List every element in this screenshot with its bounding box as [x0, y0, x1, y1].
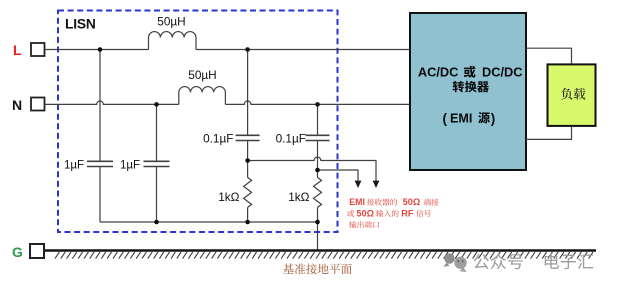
svg-text:G: G — [12, 244, 23, 260]
wire: N line down to capacitor C4 — [317, 104, 319, 135]
wire: L line down to capacitor C3 — [247, 50, 249, 136]
wire: N line down to capacitor C2 — [156, 104, 158, 161]
svg-text:50Ω: 50Ω — [403, 197, 421, 207]
svg-text:50µH: 50µH — [157, 14, 185, 28]
watermark text 公众号 — [473, 253, 522, 269]
annotation line 3: 输出端口 — [349, 221, 379, 228]
svg-text:0.1µF: 0.1µF — [276, 131, 306, 145]
converter box (AC/DC or DC/DC, EMI source) — [410, 13, 526, 170]
svg-text:50µH: 50µH — [188, 68, 216, 82]
ground plane line — [45, 249, 597, 252]
junction node 3 — [154, 102, 159, 107]
svg-text:(: ( — [443, 111, 448, 126]
terminal L square — [31, 43, 45, 56]
terminal N square — [31, 98, 45, 111]
wire: resistor R1 to bottom bus — [247, 207, 249, 222]
wire: inductor L2 to converter (hop over x=247.6 vertical) — [225, 101, 410, 104]
svg-text:1µF: 1µF — [120, 159, 140, 171]
svg-text:AC/DC: AC/DC — [418, 65, 459, 80]
wire: L line down to capacitor C1 — [99, 50, 101, 162]
svg-text:EMI: EMI — [450, 111, 472, 125]
wire: N terminal to inductor L2 (hop over x=100 vertical) — [45, 101, 179, 104]
LISN enclosure (dashed box) — [58, 11, 338, 233]
annotation line 2: 输入的 — [376, 210, 399, 217]
terminal G square — [30, 244, 44, 258]
wire: converter to load (top) — [526, 48, 572, 63]
wire: inductor L1 to converter — [196, 49, 410, 51]
wire: C4/R2 node tap to down arrow — [318, 170, 359, 181]
svg-text:1µF: 1µF — [64, 159, 84, 171]
wire: capacitor C2 to bottom bus — [156, 167, 158, 223]
wire: resistor R2 to bottom bus — [317, 207, 319, 222]
junction node 2 — [245, 47, 250, 52]
junction node 4 — [315, 102, 320, 107]
junction node 5 — [245, 158, 250, 163]
capacitor C2 1uF — [144, 161, 170, 166]
capacitor C3 0.1uF — [236, 135, 260, 140]
annotation line 2: 或 — [347, 210, 354, 217]
wire: capacitor C4 to resistor R2 — [317, 141, 319, 178]
svg-text:0.1µF: 0.1µF — [203, 131, 233, 145]
wire: LISN bottom bus down to ground plane — [317, 222, 319, 249]
svg-text:1kΩ: 1kΩ — [288, 190, 309, 204]
junction node 8 — [245, 220, 250, 225]
converter text line 1: CJK 或 — [464, 66, 476, 78]
wire: C3/R1 node tap (hops over x=317.5 branch) to down arrow — [248, 157, 376, 181]
annotation line 2: 信号 — [416, 210, 431, 217]
junction node 9 — [315, 220, 320, 225]
wire: L terminal to inductor L1 — [45, 49, 149, 51]
converter text line 2: CJK 转换器 — [453, 81, 489, 93]
svg-text:EMI: EMI — [349, 197, 365, 207]
load box label 负载 — [561, 88, 585, 100]
ground plane hatching — [55, 252, 593, 259]
inductor L1 50uH — [149, 32, 197, 50]
capacitor C1 1uF — [87, 161, 113, 166]
junction node 7 — [154, 220, 159, 225]
annotation line 1: 接收器的 — [367, 199, 397, 206]
svg-text:): ) — [491, 111, 496, 126]
svg-text:1kΩ: 1kΩ — [218, 190, 239, 204]
svg-text:N: N — [12, 97, 22, 113]
load box — [548, 64, 596, 126]
svg-text:DC/DC: DC/DC — [482, 65, 523, 80]
watermark icon (chat bubbles) — [444, 253, 455, 266]
svg-text:50Ω: 50Ω — [356, 208, 374, 218]
junction node 6 — [315, 168, 320, 173]
wire: capacitor C1 to bottom bus — [99, 167, 101, 223]
inductor L2 50uH — [179, 87, 226, 105]
annotation line 1: 端接 — [424, 199, 439, 206]
converter text line 3: CJK 源 — [478, 112, 490, 123]
wire: capacitor C3 to resistor R1 — [247, 141, 249, 178]
wire: converter to load (bottom) — [526, 127, 572, 140]
arrowhead: RF output port (right) — [373, 181, 380, 188]
watermark text 电子汇 — [545, 254, 594, 270]
arrowhead: RF output port (left) — [355, 181, 362, 188]
svg-text:LISN: LISN — [65, 17, 96, 32]
svg-text:RF: RF — [401, 208, 414, 218]
resistor R2 1k — [314, 177, 322, 207]
svg-text:L: L — [13, 42, 22, 58]
label 基准接地平面 (reference ground plane) — [283, 263, 352, 274]
wire: bottom bus of LISN — [100, 221, 318, 223]
resistor R1 1k — [244, 177, 252, 207]
junction node 1 — [98, 47, 103, 52]
capacitor C4 0.1uF — [306, 135, 330, 140]
